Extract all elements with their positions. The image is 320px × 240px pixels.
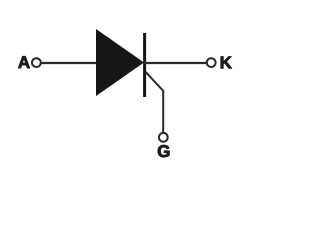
gate wire diagonal	[145, 71, 163, 91]
terminal circle K	[207, 58, 216, 67]
node K label	[221, 57, 232, 69]
wire anode	[42, 62, 98, 64]
wire cathode	[144, 62, 207, 64]
terminal circle A	[32, 58, 41, 67]
thyristor triangle	[96, 29, 144, 96]
terminal circle G	[159, 133, 168, 142]
node A label	[18, 56, 29, 68]
cathode bar	[143, 33, 146, 97]
node G label	[158, 145, 169, 157]
gate wire vertical	[162, 90, 164, 133]
